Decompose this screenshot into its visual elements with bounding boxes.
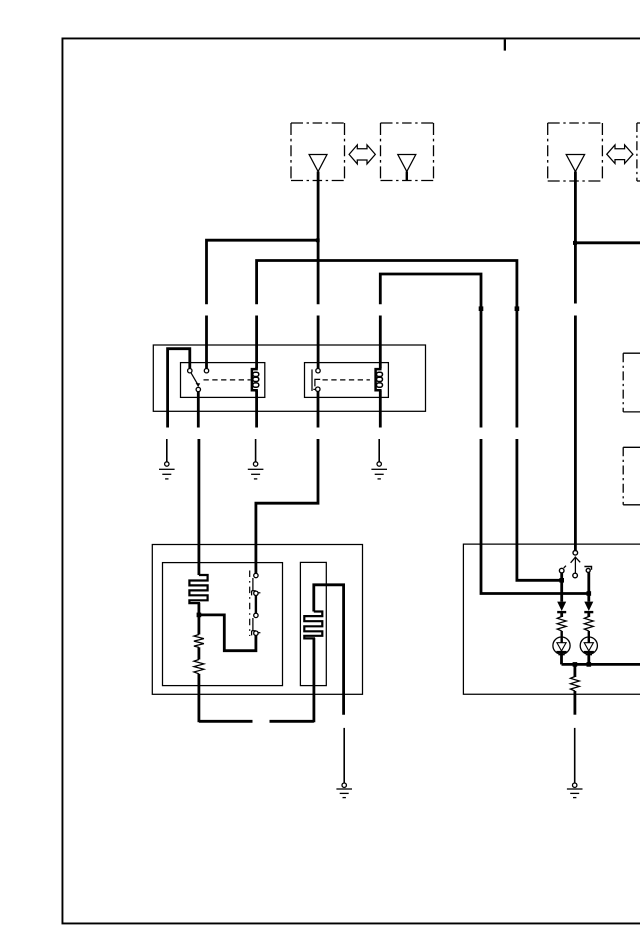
choke coil M1 (meander): [189, 575, 207, 614]
splice node on wire D: [515, 306, 520, 311]
resistor R3: [557, 617, 566, 631]
ground link wire for K1 contact: [168, 349, 190, 428]
diode D2: [584, 602, 593, 613]
wire M3 to bottom bus: [560, 651, 563, 665]
junction node at left branch: [559, 578, 564, 583]
wire G: K1 switch arm down to choke M1: [197, 392, 200, 575]
right-edge partial box RB2: [623, 447, 640, 505]
junction node bus-M4: [587, 662, 592, 667]
switch S1 contacts: [252, 573, 261, 635]
wire R4 to motor M4: [588, 631, 590, 643]
lower-left component outer box: [152, 545, 362, 695]
washer switch S2: [571, 551, 581, 578]
junction node N1: [197, 613, 202, 618]
resistor R5: [570, 677, 579, 691]
ground G4: [336, 783, 352, 798]
wire R1 to R2: [197, 647, 200, 659]
wire bus to resistor R5: [574, 664, 577, 677]
junction node A: [316, 238, 320, 242]
wire: ground link down to ground G1: [166, 439, 168, 462]
junction node at right branch: [587, 591, 592, 596]
relay K1 mechanical link: [204, 379, 251, 381]
resistor R4: [584, 617, 593, 631]
junction node F: [573, 241, 577, 245]
resistor R2: [194, 660, 204, 674]
wire down to ground G5: [574, 728, 576, 783]
diode D1: [557, 602, 566, 613]
wire from M1 to node N1: [197, 603, 200, 635]
wire R5 down (pre-gap): [574, 691, 577, 715]
lower-left inner box 2: [300, 562, 326, 685]
relay K2 body: [305, 363, 389, 398]
wire H: K2 contact down with jog to switch S1: [256, 391, 318, 573]
antenna triangle in J1: [309, 155, 327, 172]
wire M4 to bottom bus: [587, 651, 590, 665]
wire F: J3 triangle down to washer switch: [574, 172, 577, 551]
relay K2 contact: [312, 369, 320, 392]
ground G2: [248, 462, 264, 479]
wire R3 to motor M3: [561, 631, 563, 643]
antenna triangle in J3: [566, 155, 584, 172]
wire: K1 coil down to ground G2: [256, 390, 257, 461]
connector box J4 (partial, right edge): [637, 123, 640, 181]
wire M2 top to right branch: [314, 585, 344, 715]
S2 right fixed contact: [584, 567, 591, 573]
motor M4 (washer motor): [580, 637, 597, 655]
ground G1: [159, 462, 175, 479]
motor M3 (washer motor): [553, 637, 570, 655]
connector box J3 (system continuation, right pair): [548, 123, 603, 181]
wire D: down into right box to left motor branch: [517, 308, 562, 580]
wire: S2 right contact to diode D2: [587, 572, 590, 601]
wire B: node A left and down to relay K1 contact pin: [207, 240, 317, 368]
bottom bus wire: [562, 663, 640, 666]
connector box J1 (system continuation, left pair): [291, 123, 345, 181]
wire D2 to R4: [587, 612, 590, 617]
choke coil M2 (meander): [304, 612, 322, 651]
wire down to ground G4: [343, 728, 345, 783]
relay K2 mechanical link: [323, 379, 370, 381]
wire F branch to right edge: [575, 241, 640, 244]
switch S1 mechanical linkage: [249, 571, 251, 637]
resistor R1: [194, 635, 204, 648]
wire M2 bottom to bottom rail: [312, 638, 315, 722]
junction node bus-R5: [573, 662, 578, 667]
relay K1 contact pins and arm: [188, 369, 209, 392]
link wire: node N1 to switch S1 lower contact: [199, 615, 256, 651]
wire R2 down to bottom rail: [197, 674, 200, 722]
relay K1 body: [181, 363, 265, 398]
splice node on wire E: [479, 306, 484, 311]
wire A: J1 triangle down to relay K2 contact: [317, 172, 320, 369]
S2 left fixed contact: [559, 566, 566, 573]
wire D1 to R3: [560, 612, 563, 617]
ground G3: [371, 462, 387, 479]
relay K2 coil: [376, 367, 383, 392]
wire: K2 coil down to ground G3: [379, 390, 380, 461]
right-edge partial box RB1: [623, 353, 640, 412]
relay K1 coil: [252, 367, 259, 392]
ground G5: [567, 783, 583, 798]
inter-system arrow 2: [607, 145, 633, 164]
bottom rail wire (with gap): [199, 720, 314, 723]
connector box J2 (system continuation, right of pair 1): [381, 123, 434, 181]
wire: S2 left contact to diode D1: [560, 573, 563, 602]
wire E: relay K2 coil over and down to right motor branch: [380, 274, 589, 594]
relay assembly outer box: [153, 345, 425, 411]
wire C: horizontal feed down to relay K1 coil: [257, 261, 517, 369]
lower-right component outer box: [463, 544, 640, 694]
inter-system arrow 1: [349, 145, 375, 164]
antenna triangle in J2 with stub: [398, 155, 416, 181]
lower-left inner box 1: [163, 563, 283, 686]
